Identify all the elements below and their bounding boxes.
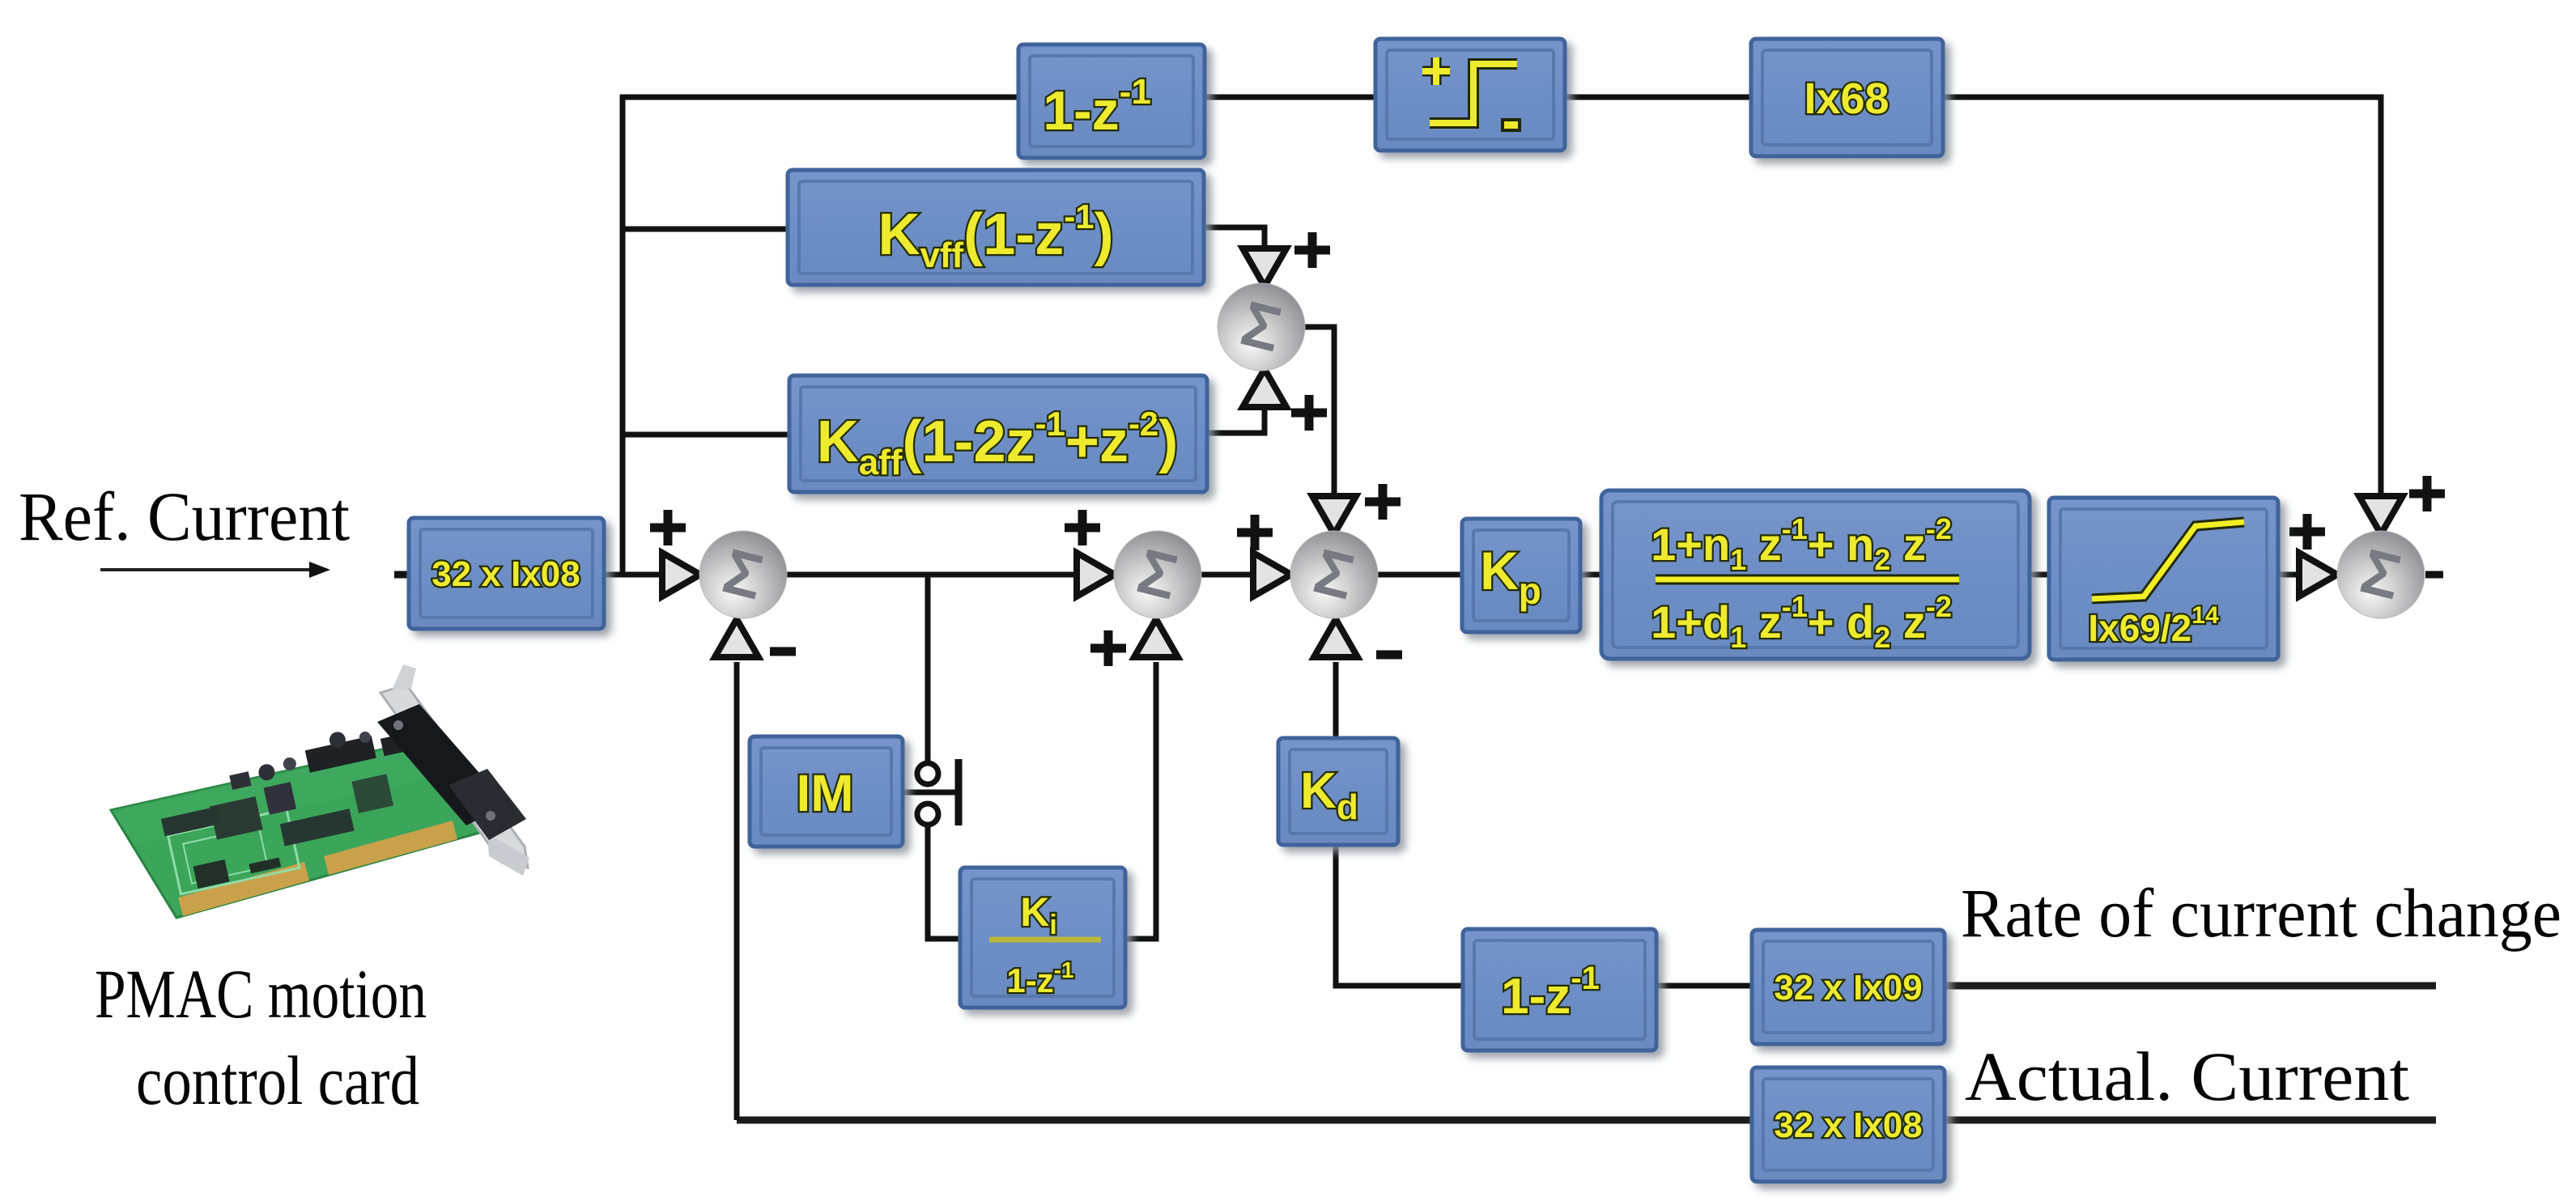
arrowhead up into upper sum from Kaff — [1243, 369, 1286, 407]
svg-text:32 x Ix08: 32 x Ix08 — [1774, 1106, 1923, 1145]
wire: final sum output stub — [2425, 571, 2443, 579]
svg-text:PMAC motion: PMAC motion — [95, 955, 427, 1033]
wire: top row to 1-z-1 block — [620, 95, 1018, 100]
wire: feedforward trunk vertical — [620, 95, 626, 575]
block 1-z^-1 bottom — [1463, 929, 1656, 1050]
arrowhead down into final sum from Ix68 path — [2359, 496, 2403, 534]
wire: feedback up to first sum — [734, 662, 740, 1120]
svg-text:32 x Ix08: 32 x Ix08 — [431, 554, 580, 594]
label Ref. Current — [19, 477, 350, 555]
label control card — [136, 1042, 419, 1119]
svg-text:control card: control card — [136, 1042, 419, 1119]
arrowhead into third sum — [1253, 553, 1291, 596]
wire: first sum to second sum — [786, 572, 1078, 578]
block 32xIx08 input scale — [409, 518, 604, 629]
block Ix68 — [1751, 39, 1943, 156]
svg-text:Actual. Current: Actual. Current — [1965, 1038, 2409, 1115]
label PMAC motion — [95, 955, 427, 1033]
wire: Kvff output to upper sum — [1204, 227, 1265, 253]
block 32xIx08 feedback — [1752, 1067, 1945, 1182]
plus sign at second sum lower input — [1090, 630, 1126, 666]
block Kd — [1278, 738, 1398, 845]
wire: third sum to Kp — [1377, 572, 1462, 578]
switch bar — [955, 759, 963, 825]
block relay deadband — [1375, 39, 1565, 151]
switch contact circles — [917, 763, 938, 825]
svg-text:Ref. Current: Ref. Current — [19, 477, 350, 555]
wire: trunk to Kvff block — [620, 227, 789, 232]
summing junction S3 — [1290, 531, 1378, 618]
plus sign at upper sum top input — [1294, 232, 1330, 268]
arrowhead down into upper sum — [1243, 248, 1286, 286]
svg-text:Ix68: Ix68 — [1804, 74, 1889, 123]
wire: filter block to saturation block — [2030, 572, 2049, 578]
wire: Ki output up to second sum — [1125, 662, 1156, 939]
summing junction S4 upper — [1218, 283, 1305, 371]
arrowhead down into third sum from upper sum — [1312, 496, 1356, 534]
block IM — [750, 736, 903, 847]
svg-text:32 x Ix09: 32 x Ix09 — [1774, 968, 1923, 1008]
wire: upper sum output down to third sum — [1302, 327, 1334, 500]
wire: input stub into 32xIx08 — [394, 571, 410, 579]
arrowhead into first sum — [662, 553, 700, 596]
wire: 32xIx08 output to first sum — [604, 572, 665, 578]
summing junction S1 — [699, 531, 787, 618]
block Kaff(1-2z^-1+z^-2) — [789, 376, 1207, 492]
wire: IM block to switch bar — [901, 790, 955, 796]
plus sign at upper sum lower input — [1291, 395, 1327, 431]
plus sign at second sum — [1065, 510, 1100, 545]
plus sign at final sum top input — [2409, 476, 2445, 511]
wire: switch to Ki block — [928, 823, 960, 939]
wire: actual current feedback line — [737, 1117, 2436, 1124]
block Ki over 1-z^-1 — [960, 868, 1125, 1008]
summing junction S5 final — [2337, 531, 2425, 618]
block 32xIx09 — [1752, 930, 1945, 1044]
wire: Kd up to third sum — [1333, 662, 1339, 741]
PMAC card photo illustration — [111, 664, 529, 918]
wire: Ix68 to right corner and down to final sum — [1943, 97, 2381, 500]
svg-text:IM: IM — [796, 764, 853, 822]
block Kvff(1-z^-1) — [788, 170, 1204, 285]
block Kp — [1462, 519, 1580, 632]
label Actual. Current — [1965, 1038, 2409, 1115]
wire: bottom 1-z-1 to 32xIx09 — [1655, 983, 1752, 989]
wire: rate of current change input line — [1942, 982, 2436, 990]
arrowhead up into second sum from Ki — [1134, 619, 1178, 657]
wire: saturation block to final sum — [2278, 572, 2301, 578]
wire: integrator branch down from main line — [925, 575, 931, 764]
block 1-z^-1 top feedforward — [1018, 45, 1205, 158]
label Rate of current change — [1961, 874, 2561, 952]
block digital filter 1+n1z+n2z over 1+d1z+d2z — [1601, 490, 2030, 659]
plus sign at final sum left input — [2289, 514, 2325, 550]
arrowhead up into first sum feedback — [715, 619, 759, 657]
wire: second sum to third sum — [1201, 572, 1255, 578]
svg-text:Rate of current change: Rate of current change — [1961, 874, 2561, 952]
plus sign at third sum top input — [1365, 484, 1401, 520]
wire: trunk to Kaff block — [620, 432, 791, 438]
wire: rate feedback to Kd — [1336, 842, 1463, 986]
arrowhead into second sum — [1077, 553, 1115, 596]
wire: input ref current arrow — [100, 562, 330, 578]
summing junction S2 — [1114, 531, 1201, 618]
wire: Kaff output to upper sum from below — [1205, 403, 1265, 433]
arrowhead into final sum — [2299, 553, 2337, 596]
plus sign at third sum — [1237, 515, 1273, 550]
block saturation Ix69/2^14 — [2049, 498, 2278, 660]
arrowhead up into third sum from Kd — [1314, 619, 1358, 657]
wire: Kp to filter block — [1580, 572, 1601, 578]
wire: 1-z-1 to relay block — [1205, 95, 1375, 100]
minus sign at third sum lower input — [1376, 651, 1402, 660]
wire: relay to Ix68 block — [1565, 95, 1751, 100]
plus sign at first sum — [650, 510, 686, 545]
minus sign at first sum feedback — [770, 647, 796, 656]
